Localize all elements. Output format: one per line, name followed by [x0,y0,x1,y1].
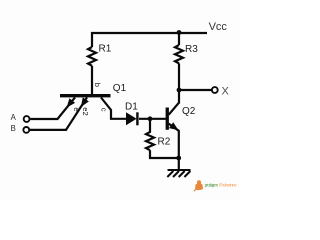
wire Vcc top rail [92,33,207,47]
svg-text:Q1: Q1 [113,83,127,94]
svg-text:e2: e2 [81,107,90,115]
svg-text:e: e [72,107,81,111]
resistor R3 [175,45,183,63]
transistor Q1 emitter arrow e1 [67,98,76,107]
transistor Q2 emitter arrow [169,122,179,130]
diode D1 [126,112,137,125]
svg-text:c: c [100,108,109,112]
svg-text:Vcc: Vcc [209,21,228,33]
svg-text:R1: R1 [99,44,112,55]
svg-text:b: b [93,83,102,87]
wire output X [179,89,212,91]
svg-text:B: B [11,124,16,133]
svg-text:Q2: Q2 [182,106,196,117]
wire R3 drop from rail [178,33,180,45]
wire Q2 collector lead [169,103,179,115]
wire Q1 collector to D1 [101,98,126,119]
svg-text:D1: D1 [125,101,138,112]
node junction emitter / R2 bottom [176,156,181,161]
svg-text:A: A [11,113,17,122]
transistor Q2 base bar [166,108,169,130]
watermark icon [194,180,204,191]
node junction D1 / R2 / Q2 base [148,116,153,121]
wire input B [30,97,87,129]
wire input A [30,97,75,119]
svg-text:ITnekretnine: ITnekretnine [219,182,238,187]
node junction collector / output [177,88,182,93]
wire Q2 emitter lead [169,124,179,170]
svg-text:X: X [222,86,230,98]
terminal output X [212,87,218,93]
node junction top rail / R3 [177,30,182,35]
terminal input B [23,127,29,133]
wire D1 cathode to Q2 base [139,118,166,120]
svg-text:R2: R2 [158,137,171,148]
transistor Q1 base bar [60,94,111,97]
transistor Q1 emitter arrow e2 [81,97,89,107]
svg-text:R3: R3 [185,44,198,55]
wire R3 to Q2 collector [178,63,180,103]
ground [167,170,190,177]
resistor R2 [146,119,179,158]
resistor R1 [88,47,96,66]
wire R1 to Q1 base [91,66,93,94]
terminal input A [24,116,30,122]
svg-text:prodajem: prodajem [205,182,219,187]
